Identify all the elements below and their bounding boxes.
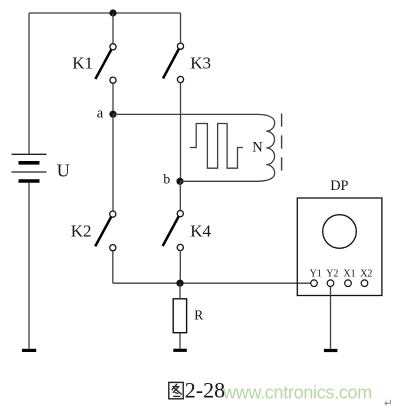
inductor N loop (wire a to coil, coil, wire coil to b) xyxy=(113,114,275,181)
node a xyxy=(109,111,116,118)
ground left xyxy=(22,349,36,352)
node bottom junction xyxy=(176,280,183,287)
pulse waveform xyxy=(190,124,243,169)
svg-text:K3: K3 xyxy=(190,54,211,73)
svg-text:b: b xyxy=(163,173,170,188)
svg-text:2-28: 2-28 xyxy=(185,378,225,403)
caption glyph 图 (drawn) xyxy=(169,382,183,398)
svg-text:www.cntronics.com: www.cntronics.com xyxy=(222,382,372,402)
wire Y2 to ground xyxy=(330,286,332,349)
resistor R xyxy=(173,299,186,333)
svg-text:K2: K2 xyxy=(71,221,92,240)
wire R bottom lead xyxy=(179,333,181,349)
wire top horizontal xyxy=(29,12,181,14)
ground under R xyxy=(173,349,187,352)
svg-text:K4: K4 xyxy=(190,221,211,240)
wire left vertical upper xyxy=(28,13,30,154)
wire K1 to node a xyxy=(112,83,114,114)
wire node b to K4 xyxy=(179,181,181,210)
wire K3 to node b xyxy=(180,83,182,182)
node b xyxy=(176,178,183,185)
svg-text:a: a xyxy=(97,106,104,122)
svg-text:X1: X1 xyxy=(343,268,355,279)
wire K4 lower lead xyxy=(179,250,181,283)
wire bottom horizontal to Y1 xyxy=(113,282,311,284)
switch K1 xyxy=(95,44,116,84)
ground under Y2 xyxy=(324,349,338,352)
wire K1 top lead xyxy=(112,13,114,44)
node top junction xyxy=(109,9,116,16)
terminal Y2 xyxy=(327,280,334,287)
return mark xyxy=(385,400,390,406)
switch K4 xyxy=(163,211,184,251)
svg-text:K1: K1 xyxy=(72,54,93,73)
svg-text:U: U xyxy=(57,160,70,180)
terminal Y1 xyxy=(311,280,318,287)
svg-text:DP: DP xyxy=(330,178,348,194)
oscilloscope DP box xyxy=(297,198,382,296)
terminal X2 xyxy=(361,280,368,287)
wire K3 top lead xyxy=(180,13,182,43)
svg-text:Y2: Y2 xyxy=(326,268,338,279)
battery U xyxy=(12,154,47,181)
wire left vertical lower xyxy=(28,183,30,349)
wire K2 lower lead xyxy=(112,251,114,284)
CRT screen circle xyxy=(323,215,357,249)
svg-text:Y1: Y1 xyxy=(310,268,322,279)
switch K3 xyxy=(163,43,184,82)
switch K2 xyxy=(95,211,116,251)
terminal X1 xyxy=(345,280,352,287)
svg-text:X2: X2 xyxy=(360,268,372,279)
wire R top lead xyxy=(179,283,181,299)
svg-text:N: N xyxy=(252,140,263,156)
svg-text:R: R xyxy=(194,308,203,323)
core dashed line xyxy=(281,114,283,179)
wire node a to K2 xyxy=(112,114,114,211)
